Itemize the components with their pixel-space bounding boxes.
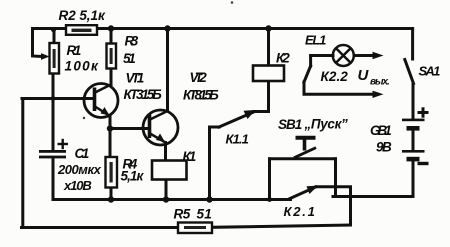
wire SB1 top branch xyxy=(270,157,336,160)
svg-text:U: U xyxy=(358,67,370,84)
node K1.1 bottom xyxy=(206,196,212,202)
wiper arrowhead into R1 xyxy=(41,53,50,60)
svg-text:К2.1: К2.1 xyxy=(284,204,315,219)
svg-text:VT2: VT2 xyxy=(190,70,208,85)
wire lamp left wire xyxy=(311,54,333,57)
wire K1 bottom lead xyxy=(165,179,168,200)
wire SB1 block left vertical xyxy=(268,159,271,200)
svg-text:100к: 100к xyxy=(65,59,99,74)
wire R3 top lead xyxy=(110,29,113,44)
wire VT1 base line xyxy=(22,97,93,100)
resistor R3 body xyxy=(107,44,117,69)
wire top rail left segment xyxy=(33,27,67,30)
svg-text:К1.1: К1.1 xyxy=(226,132,249,147)
svg-text:EL1: EL1 xyxy=(305,33,326,48)
wire VT2 emitter lead xyxy=(164,143,167,162)
svg-text:R1: R1 xyxy=(67,43,82,58)
svg-text:К2: К2 xyxy=(276,51,290,66)
svg-text:КТ815Б: КТ815Б xyxy=(183,88,219,103)
wire battery mid lead xyxy=(412,129,415,151)
wire K2.2 lower lead xyxy=(304,82,376,94)
wire bottom rail C right segment xyxy=(212,225,351,227)
wire K2.1 output to lower rail xyxy=(316,187,351,225)
output arrow lower xyxy=(373,91,384,98)
svg-text:х10В: х10В xyxy=(63,178,92,193)
transistor VT2 xyxy=(143,110,178,145)
scan speck top edge xyxy=(231,1,234,4)
wire bottom rail B to battery xyxy=(333,195,413,198)
wire battery negative lead xyxy=(412,159,415,197)
contact K2.1 arrowhead xyxy=(307,186,319,194)
switch SA1 upper lead xyxy=(411,29,414,60)
node VT1 emitter xyxy=(107,125,113,131)
switch SA1 arm xyxy=(405,60,414,84)
resistor R4 body xyxy=(106,157,118,188)
wire left drop to R1 wiper xyxy=(33,29,44,57)
svg-text:R5: R5 xyxy=(174,207,191,222)
svg-text:вых.: вых. xyxy=(370,77,390,88)
contact K2.1 diagonal arm xyxy=(290,187,316,199)
node R4 bottom xyxy=(108,196,114,202)
wire K2 bottom lead xyxy=(267,81,270,112)
svg-text:51: 51 xyxy=(123,51,136,66)
node block left bottom xyxy=(267,197,272,202)
svg-text:VT1: VT1 xyxy=(126,71,145,86)
capacitor C1 xyxy=(39,139,68,159)
wire top rail main segment xyxy=(97,27,413,30)
wire K2 to K1.1 fixed xyxy=(254,110,269,113)
node K1 bottom xyxy=(163,196,169,202)
C1 plus sign xyxy=(58,143,69,145)
wire left rail down xyxy=(21,99,24,228)
resistor R1 body (variable) xyxy=(41,43,59,74)
svg-text:SB1: SB1 xyxy=(278,117,302,132)
svg-text:R2 5,1к: R2 5,1к xyxy=(59,8,106,23)
contact K2.2 diagonal arm xyxy=(304,66,311,82)
wire battery positive lead to SA1 xyxy=(412,84,415,120)
lamp EL1 xyxy=(333,45,354,66)
node VT2 collector top xyxy=(164,25,170,31)
svg-text:GB1: GB1 xyxy=(370,123,392,138)
scan speck near VT1 xyxy=(83,117,85,119)
relay coil K2 xyxy=(253,66,284,82)
wire upper output arrow line xyxy=(354,54,376,57)
svg-text:200мкх: 200мкх xyxy=(57,162,102,177)
node R1 bottom / base xyxy=(51,96,56,101)
wire emitter node to VT2 base xyxy=(110,127,149,130)
wire K2 top lead xyxy=(267,29,270,67)
relay coil K1 xyxy=(152,161,187,180)
resistor R2 body xyxy=(66,25,97,35)
wire R4 top lead xyxy=(109,129,112,158)
wire VT2 collector lead xyxy=(166,29,169,112)
node R3 top xyxy=(108,25,114,31)
wire K1.1 lower lead xyxy=(210,127,220,200)
battery plus sign xyxy=(418,111,429,114)
wire VT1 collector lead xyxy=(110,69,113,86)
wire VT1 emitter lead xyxy=(109,116,112,129)
resistor R5 body xyxy=(178,223,212,234)
svg-text:С1: С1 xyxy=(75,146,90,161)
svg-text:R3: R3 xyxy=(125,33,139,48)
output arrow upper xyxy=(373,52,384,59)
button SB1 actuator xyxy=(294,138,316,158)
battery minus sign xyxy=(418,162,429,165)
wire C1 bottom lead xyxy=(52,158,55,200)
node K2 top xyxy=(265,25,271,31)
svg-text:51: 51 xyxy=(197,207,212,222)
svg-text:SA1: SA1 xyxy=(419,64,441,79)
svg-text:9В: 9В xyxy=(376,140,392,155)
wire R1 bottom lead down to C1 xyxy=(52,74,55,151)
svg-text:5,1к: 5,1к xyxy=(121,169,145,184)
contact K1.1 arrowhead xyxy=(244,110,256,119)
wire bottom rail A xyxy=(53,198,291,201)
transistor VT1 xyxy=(84,84,118,118)
svg-text:К1: К1 xyxy=(183,149,197,164)
wire SB1 block right vertical xyxy=(334,159,337,197)
wire R4 bottom lead xyxy=(110,188,113,200)
contact K2.2 upper lead xyxy=(309,56,312,67)
wire R1 top lead xyxy=(53,29,56,44)
contact K1.1 diagonal arm xyxy=(219,113,253,128)
svg-text:К2.2: К2.2 xyxy=(321,69,349,84)
svg-text:КТ315Б: КТ315Б xyxy=(124,87,163,102)
node R1 top xyxy=(51,27,56,32)
battery GB1 cells xyxy=(402,107,429,163)
svg-text:„Пуск”: „Пуск” xyxy=(304,117,349,132)
wire bottom rail C left segment with R5 xyxy=(22,226,179,229)
